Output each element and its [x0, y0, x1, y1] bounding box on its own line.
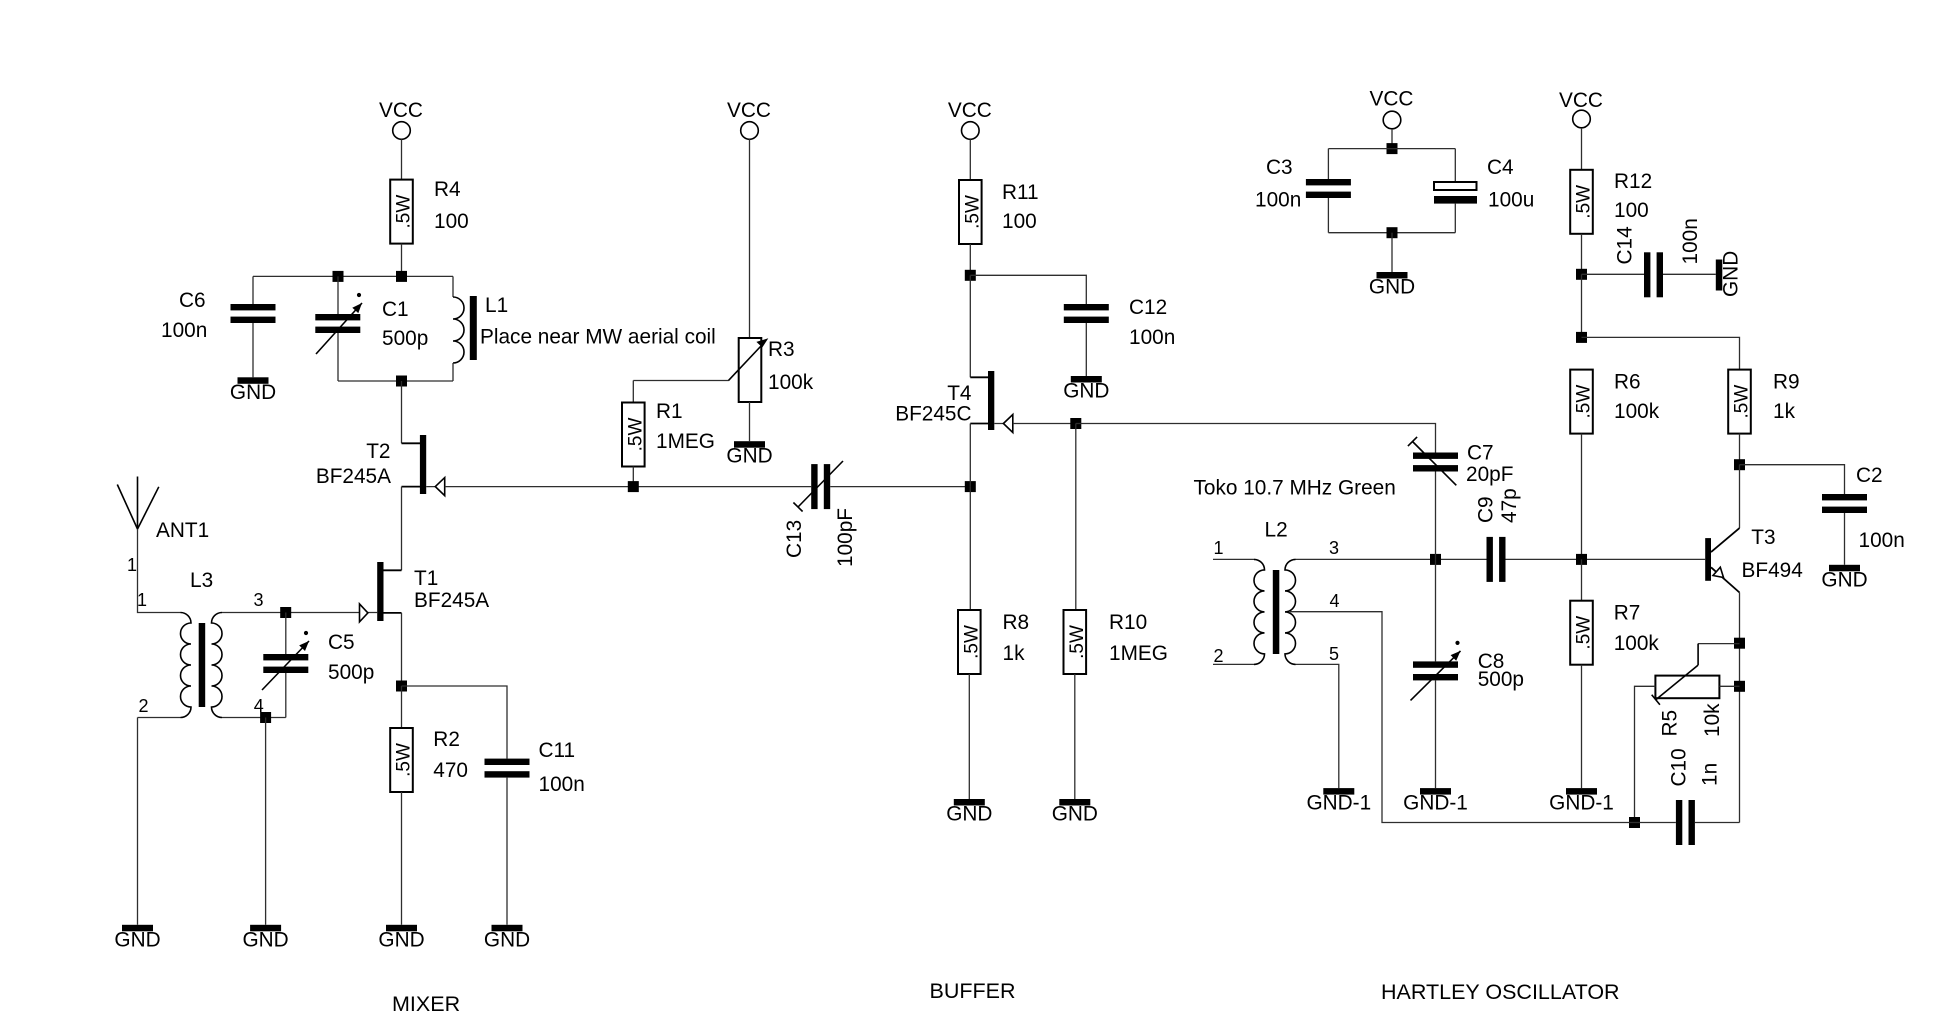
svg-text:R3: R3	[768, 338, 795, 361]
svg-text:GND: GND	[1063, 380, 1109, 403]
svg-text:L3: L3	[190, 569, 213, 592]
svg-text:C11: C11	[539, 739, 576, 762]
node	[260, 712, 271, 723]
wire	[1085, 323, 1087, 376]
svg-text:BF245A: BF245A	[414, 589, 489, 612]
node	[1734, 681, 1745, 692]
wire R5 wiper top	[1698, 643, 1739, 645]
wire L3 pin 2	[138, 717, 181, 719]
resistor R9	[1728, 370, 1799, 434]
svg-text:1k: 1k	[1003, 642, 1026, 665]
wire R5 left terminal down	[1635, 686, 1656, 822]
svg-text:.5W: .5W	[1574, 185, 1595, 219]
capacitor C14	[1614, 218, 1703, 297]
wire L3 pin 4	[222, 717, 286, 719]
ground	[484, 925, 530, 952]
ground GND-1	[1549, 788, 1614, 815]
wire R3 wiper	[633, 380, 728, 382]
power VCC net (R4)	[379, 99, 423, 139]
transformer L3	[137, 569, 264, 718]
svg-text:T1: T1	[414, 567, 438, 590]
ground (rotated)	[1716, 251, 1743, 297]
svg-text:500p: 500p	[328, 661, 374, 684]
wire L2 pin 1 stub	[1213, 558, 1254, 560]
svg-text:R1: R1	[656, 400, 683, 423]
ground	[1063, 376, 1109, 403]
svg-text:GND: GND	[1720, 251, 1743, 297]
resistor R2	[390, 728, 468, 792]
trimmer capacitor C13	[783, 461, 857, 567]
node	[396, 376, 407, 387]
node	[1387, 143, 1398, 154]
wire	[969, 139, 971, 180]
capacitor C1 (variable)	[315, 293, 428, 354]
capacitor C9	[1475, 488, 1522, 582]
ground	[946, 799, 992, 826]
svg-text:GND-1: GND-1	[1306, 792, 1371, 815]
node	[628, 481, 639, 492]
svg-text:10k: 10k	[1701, 703, 1724, 737]
svg-text:MIXER: MIXER	[392, 992, 460, 1016]
wire	[1581, 665, 1583, 788]
node	[280, 607, 291, 618]
wire	[969, 487, 971, 610]
svg-text:T2: T2	[366, 440, 390, 463]
svg-text:.5W: .5W	[626, 418, 647, 452]
wire C3-C4 bottom rail	[1328, 232, 1455, 234]
svg-text:.5W: .5W	[1067, 625, 1088, 659]
wire T3 collector riser	[1739, 465, 1741, 528]
svg-text:R7: R7	[1614, 602, 1641, 625]
wire	[1075, 424, 1077, 611]
ground	[242, 925, 288, 952]
wire	[1663, 273, 1716, 275]
wire T3 emitter down	[1739, 593, 1741, 823]
wire T1 source down	[401, 613, 403, 686]
svg-text:100n: 100n	[1129, 326, 1175, 349]
capacitor C5 (variable)	[262, 631, 374, 690]
ground	[1369, 272, 1415, 299]
wire	[632, 467, 634, 487]
svg-text:R8: R8	[1003, 611, 1030, 634]
svg-text:R6: R6	[1614, 370, 1641, 393]
svg-text:VCC: VCC	[727, 99, 771, 122]
ground GND-1	[1403, 788, 1468, 815]
wire	[401, 381, 403, 443]
wire	[749, 402, 751, 441]
svg-text:R11: R11	[1002, 181, 1039, 204]
wire to C11	[402, 686, 508, 759]
svg-text:R4: R4	[434, 178, 461, 201]
wire R6 bottom to base line	[1581, 434, 1583, 560]
trimmer capacitor C7	[1408, 437, 1514, 486]
power VCC net (R3)	[727, 99, 771, 139]
power VCC net (R11)	[948, 99, 992, 139]
wire T4 drain riser	[969, 275, 971, 377]
svg-text:500p: 500p	[1478, 668, 1524, 691]
wire C13 to T4 source node	[830, 486, 970, 488]
wire	[401, 792, 403, 925]
wire	[1454, 149, 1456, 182]
ground	[114, 925, 160, 952]
wire	[401, 686, 403, 728]
ground	[378, 925, 424, 952]
transistor T3	[1705, 526, 1803, 593]
wire	[1435, 559, 1437, 661]
wire	[1327, 198, 1329, 233]
svg-text:L2: L2	[1265, 519, 1288, 542]
svg-text:BF245C: BF245C	[895, 403, 971, 426]
svg-text:C12: C12	[1129, 296, 1167, 319]
node	[1430, 554, 1441, 565]
wire	[1391, 129, 1393, 149]
svg-text:GND: GND	[1821, 568, 1867, 591]
svg-text:100: 100	[1614, 199, 1649, 222]
svg-text:R10: R10	[1109, 611, 1147, 634]
svg-text:VCC: VCC	[1370, 88, 1414, 111]
svg-text:100n: 100n	[1255, 189, 1301, 212]
resistor R7	[1570, 601, 1659, 665]
svg-text:100n: 100n	[1679, 218, 1702, 264]
wire	[1844, 513, 1846, 565]
wire tank bottom rail	[338, 380, 453, 382]
svg-text:470: 470	[433, 759, 468, 782]
capacitor C11	[485, 739, 585, 796]
svg-text:1n: 1n	[1699, 763, 1722, 786]
node	[333, 271, 344, 282]
svg-text:2: 2	[1213, 646, 1223, 666]
wire to C12	[970, 275, 1086, 304]
wire	[337, 333, 339, 381]
wire L2 pin 3 to C9	[1296, 558, 1487, 560]
svg-text:C1: C1	[382, 298, 409, 321]
capacitor C6	[161, 289, 276, 342]
wire	[452, 276, 454, 297]
svg-text:VCC: VCC	[1559, 89, 1603, 112]
wire T2 source to T1 drain	[401, 487, 403, 571]
svg-text:C7: C7	[1467, 442, 1494, 465]
ground	[230, 377, 276, 404]
resistor R12	[1570, 170, 1652, 234]
node	[1629, 817, 1640, 828]
wire	[1074, 674, 1076, 799]
svg-text:100k: 100k	[1614, 632, 1660, 655]
svg-text:ANT1: ANT1	[156, 519, 209, 542]
wire	[1581, 234, 1583, 274]
potentiometer R5	[1652, 644, 1724, 737]
svg-text:HARTLEY OSCILLATOR: HARTLEY OSCILLATOR	[1381, 980, 1620, 1004]
wire	[1327, 149, 1329, 179]
svg-text:GND-1: GND-1	[1549, 792, 1614, 815]
node	[965, 270, 976, 281]
wire	[285, 613, 287, 655]
svg-text:VCC: VCC	[379, 99, 423, 122]
node	[396, 271, 407, 282]
svg-text:VCC: VCC	[948, 99, 992, 122]
svg-text:100k: 100k	[1614, 400, 1660, 423]
svg-text:1: 1	[1213, 538, 1223, 558]
svg-text:100k: 100k	[768, 371, 814, 394]
resistor R1	[622, 400, 715, 467]
svg-text:500p: 500p	[382, 327, 428, 350]
svg-text:GND: GND	[726, 445, 772, 468]
svg-text:GND: GND	[230, 381, 276, 404]
wire C9 to T3 base	[1506, 558, 1706, 560]
wire	[1435, 680, 1437, 788]
svg-text:C10: C10	[1668, 748, 1691, 786]
potentiometer R3	[728, 338, 813, 402]
wire main line T2 gate to C13	[445, 486, 812, 488]
svg-text:GND: GND	[242, 928, 288, 951]
resistor R10	[1064, 610, 1168, 674]
node	[1734, 638, 1745, 649]
wire	[1581, 128, 1583, 170]
ground	[1821, 565, 1867, 592]
svg-text:.5W: .5W	[1574, 616, 1595, 650]
svg-text:C9: C9	[1475, 496, 1498, 523]
wire to C2	[1740, 465, 1845, 494]
svg-text:GND-1: GND-1	[1403, 792, 1468, 815]
wire C3-C4 top rail	[1328, 148, 1455, 150]
wire antenna to L3 pin 1	[138, 529, 181, 613]
svg-text:R5: R5	[1659, 710, 1682, 737]
resistor R11	[959, 180, 1039, 244]
resistor R8	[958, 610, 1029, 674]
svg-text:20pF: 20pF	[1466, 463, 1513, 486]
wire L3 pin 3 to T1 gate	[222, 612, 377, 614]
wire	[252, 276, 254, 304]
wire	[337, 276, 339, 314]
transistor T1	[360, 562, 490, 622]
svg-text:4: 4	[1329, 591, 1339, 611]
ground GND-1	[1306, 788, 1371, 815]
svg-text:GND: GND	[946, 803, 992, 826]
svg-text:1MEG: 1MEG	[656, 430, 715, 453]
node	[965, 481, 976, 492]
resistor R4	[390, 178, 469, 244]
capacitor C8 (variable)	[1411, 641, 1524, 701]
capacitor C2	[1822, 464, 1905, 552]
svg-text:1: 1	[137, 590, 147, 610]
svg-text:1: 1	[127, 555, 137, 575]
ground	[1052, 799, 1098, 826]
wire	[137, 718, 139, 925]
wire	[401, 139, 403, 179]
wire T4 gate to C7	[1076, 424, 1436, 453]
wire	[506, 778, 508, 925]
capacitor C4 (polarized)	[1434, 156, 1534, 212]
svg-text:1MEG: 1MEG	[1109, 642, 1168, 665]
svg-text:100n: 100n	[539, 773, 585, 796]
wire	[1435, 472, 1437, 560]
transformer L2	[1213, 519, 1339, 666]
ground	[726, 441, 772, 468]
svg-text:BF245A: BF245A	[316, 465, 391, 488]
svg-text:GND: GND	[484, 928, 530, 951]
svg-text:100: 100	[1002, 210, 1037, 233]
svg-text:GND: GND	[114, 928, 160, 951]
svg-text:.5W: .5W	[963, 195, 984, 229]
wire R5 right terminal	[1719, 685, 1739, 687]
svg-text:.5W: .5W	[394, 743, 415, 777]
svg-text:5: 5	[1329, 644, 1339, 664]
wire	[1391, 233, 1393, 272]
node	[1387, 227, 1398, 238]
resistor R6	[1570, 370, 1659, 434]
svg-text:GND: GND	[1369, 276, 1415, 299]
svg-text:Place near MW aerial coil: Place near MW aerial coil	[480, 326, 716, 349]
node	[1576, 554, 1587, 565]
wire	[1695, 822, 1740, 824]
svg-text:R2: R2	[433, 728, 460, 751]
wire	[452, 363, 454, 381]
wire	[749, 139, 751, 338]
wire	[969, 244, 971, 275]
wire	[1635, 822, 1676, 824]
svg-text:C5: C5	[328, 631, 355, 654]
wire	[1454, 204, 1456, 233]
wire L2 pin 2 stub	[1213, 663, 1254, 665]
wire	[1581, 274, 1583, 337]
svg-text:.5W: .5W	[394, 195, 415, 229]
wire	[1739, 434, 1741, 465]
wire L2 pin 4 feedback loop	[1290, 612, 1635, 823]
node	[1070, 418, 1081, 429]
node	[396, 681, 407, 692]
svg-text:C3: C3	[1266, 156, 1293, 179]
svg-text:100n: 100n	[1859, 529, 1905, 552]
svg-text:Toko 10.7 MHz Green: Toko 10.7 MHz Green	[1194, 477, 1396, 500]
svg-text:GND: GND	[1052, 803, 1098, 826]
svg-text:C6: C6	[179, 289, 206, 312]
svg-text:C14: C14	[1614, 226, 1637, 264]
wire L2 pin 5 to ground	[1296, 664, 1339, 788]
antenna ANT1	[117, 477, 209, 576]
node	[1576, 269, 1587, 280]
svg-text:R12: R12	[1614, 170, 1652, 193]
capacitor C12	[1064, 296, 1175, 349]
svg-text:.5W: .5W	[1732, 385, 1753, 419]
node	[1576, 332, 1587, 343]
svg-text:C13: C13	[783, 520, 806, 558]
svg-text:C2: C2	[1856, 464, 1883, 487]
wire T4 gate	[1013, 423, 1076, 425]
svg-text:BUFFER: BUFFER	[930, 979, 1016, 1003]
capacitor C10	[1668, 748, 1722, 845]
wire	[1581, 559, 1583, 600]
svg-text:3: 3	[1329, 538, 1339, 558]
svg-text:GND: GND	[378, 928, 424, 951]
svg-text:C4: C4	[1487, 156, 1514, 179]
svg-text:47p: 47p	[1498, 488, 1521, 523]
svg-text:100u: 100u	[1488, 189, 1534, 212]
power VCC net (R12)	[1559, 89, 1603, 128]
wire to R9	[1582, 337, 1740, 369]
wire T4 source down	[969, 424, 971, 487]
transistor T2	[316, 435, 445, 496]
power VCC net (C3 C4)	[1370, 88, 1414, 129]
wire	[285, 673, 287, 718]
wire	[632, 381, 634, 403]
wire to C14	[1582, 273, 1645, 275]
wire tank top rail	[253, 275, 453, 277]
wire	[252, 323, 254, 377]
svg-text:3: 3	[253, 590, 263, 610]
svg-text:.5W: .5W	[1574, 385, 1595, 419]
wire	[401, 244, 403, 277]
transistor T4	[895, 371, 1013, 433]
wire	[968, 674, 970, 799]
svg-text:L1: L1	[485, 294, 508, 317]
svg-text:100: 100	[434, 210, 469, 233]
svg-text:.5W: .5W	[962, 625, 983, 659]
capacitor C3	[1255, 156, 1351, 212]
inductor L1	[453, 294, 716, 363]
svg-text:T3: T3	[1751, 526, 1775, 549]
node	[1734, 459, 1745, 470]
svg-text:R9: R9	[1773, 370, 1800, 393]
svg-text:BF494: BF494	[1742, 559, 1803, 582]
svg-text:2: 2	[138, 696, 148, 716]
svg-text:1k: 1k	[1773, 400, 1796, 423]
svg-text:100n: 100n	[161, 319, 207, 342]
svg-text:100pF: 100pF	[834, 508, 857, 567]
wire	[265, 718, 267, 925]
